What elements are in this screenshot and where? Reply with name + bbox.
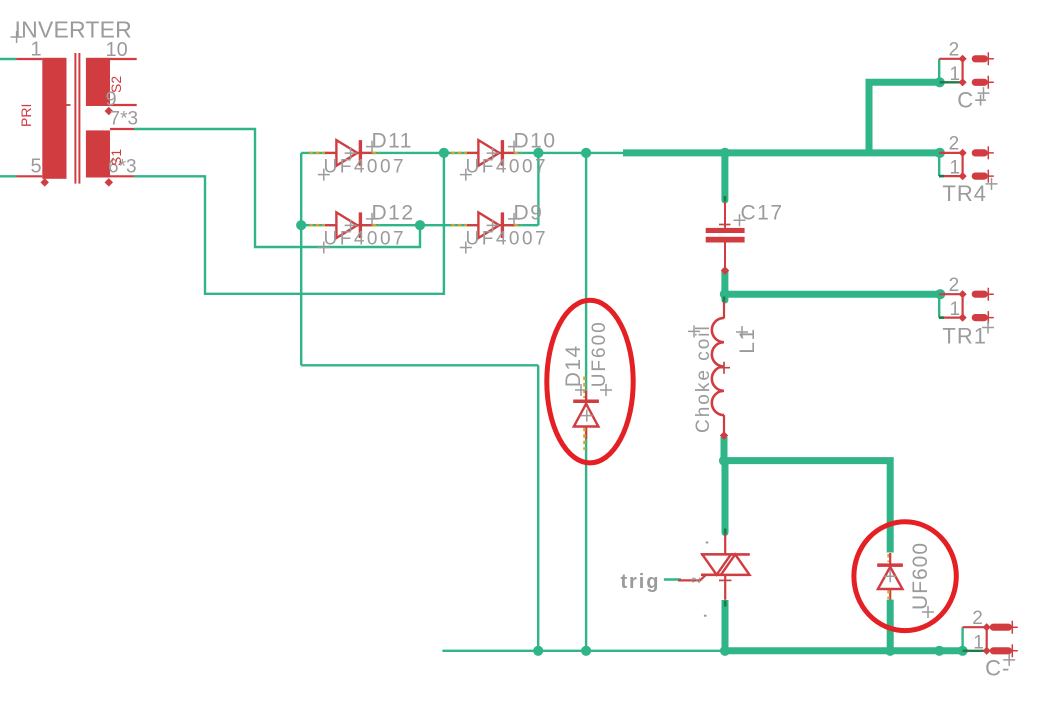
wire end tick above C17 <box>724 196 727 202</box>
diode D11 <box>309 129 413 180</box>
svg-text:L1: L1 <box>736 327 759 353</box>
connector C- <box>963 608 1018 680</box>
node row1-D10 junction <box>533 148 543 158</box>
svg-text:UF600: UF600 <box>909 542 932 610</box>
node bottom UF600 junction <box>885 646 895 656</box>
transformer S2 winding <box>86 58 110 106</box>
pin 6 diamond <box>105 178 113 186</box>
svg-text:2: 2 <box>689 577 703 584</box>
node row1-D14 junction <box>581 148 591 158</box>
node TR1 junction <box>935 289 945 299</box>
pin 7 lead <box>110 128 134 130</box>
SECTION: capacitor C17 <box>706 196 784 275</box>
gray speck left of MT2 <box>706 542 709 544</box>
wire D14 vertical <box>585 153 587 651</box>
connector C+ <box>939 40 994 113</box>
wire C+ branch <box>869 82 940 153</box>
svg-text:1: 1 <box>950 158 961 179</box>
pin 5 diamond <box>40 178 48 186</box>
svg-text:S1: S1 <box>108 149 124 166</box>
SECTION: junction dots <box>296 77 968 656</box>
wire net S2bot pin7 to bridge <box>134 129 420 247</box>
svg-text:UF4007: UF4007 <box>324 156 407 177</box>
wire row1 D11-D10 <box>301 152 623 154</box>
wire C17 bottom to L1 top <box>721 271 728 300</box>
svg-text:1: 1 <box>973 632 984 653</box>
triac gate pin <box>678 575 706 581</box>
capacitor C17 <box>724 202 726 228</box>
transformer origin cross <box>11 31 23 43</box>
svg-text:S2: S2 <box>108 76 124 93</box>
gray speck left of MT1 <box>704 615 707 617</box>
wire end tick triac top <box>724 529 727 535</box>
svg-text:TR1: TR1 <box>942 324 987 349</box>
svg-text:5: 5 <box>31 156 42 178</box>
SECTION: inductor L1 <box>688 297 759 440</box>
wire trig stub <box>664 578 681 580</box>
svg-text:2: 2 <box>949 275 960 296</box>
svg-text:7*3: 7*3 <box>110 109 139 130</box>
svg-text:UF4007: UF4007 <box>324 229 407 250</box>
wire UF600 bottom <box>887 600 894 651</box>
wire pin1 left lead <box>0 58 17 60</box>
wire branch right to UF600 <box>724 461 890 553</box>
pin 9 lead <box>110 104 137 106</box>
diode D10 <box>451 129 556 180</box>
wire TR1 horizontal <box>725 291 940 298</box>
svg-text:1: 1 <box>950 64 961 85</box>
svg-text:UF4007: UF4007 <box>466 156 549 177</box>
wire triac top <box>722 461 729 533</box>
SECTION: bottom UF600 with annotation circle <box>854 522 956 631</box>
svg-text:trig: trig <box>621 571 661 593</box>
transformer core <box>74 53 76 184</box>
wire TR1 connector riser <box>938 294 940 317</box>
svg-text:D9: D9 <box>514 202 544 225</box>
annotation circle around UF600 <box>854 522 956 631</box>
diode D12 <box>309 202 414 254</box>
transformer S1 winding <box>86 130 110 177</box>
diode D9 <box>451 202 548 254</box>
wire row1 thick to TR4 <box>623 149 940 156</box>
wire C- riser <box>961 627 963 651</box>
wire net S1bot pin6 to D11-D10 junction <box>134 153 444 294</box>
node row1-D11 junction <box>439 148 449 158</box>
wire lower bus horizontal <box>301 364 538 366</box>
inductor L1 choke coil <box>723 302 725 319</box>
triac origin cross <box>719 579 731 581</box>
svg-text:10: 10 <box>106 39 128 61</box>
node row1-TR4 junction <box>935 148 945 158</box>
annotation ellipse around D14 <box>547 300 633 463</box>
svg-text:UF600: UF600 <box>589 320 610 387</box>
wire C17 top stub <box>721 153 728 200</box>
node bottom triac junction <box>720 646 730 656</box>
node bottom D14 junction <box>581 646 591 656</box>
node C+ junction <box>935 77 945 87</box>
svg-text:2: 2 <box>949 40 960 61</box>
diode D14 <box>562 320 612 450</box>
pin 10 lead <box>110 58 137 60</box>
wire C+ connector riser <box>938 59 940 83</box>
SECTION: bridge diodes <box>309 129 556 253</box>
wire left vertical from row1 to lower bus <box>300 153 302 365</box>
svg-text:2: 2 <box>949 134 960 155</box>
svg-text:Choke coil: Choke coil <box>693 324 714 433</box>
svg-text:C-: C- <box>985 655 1010 680</box>
wire end tick triac bottom <box>724 601 727 607</box>
pin 5 lead <box>17 175 43 177</box>
node bottom bus junction 1 <box>533 646 543 656</box>
wire end tick above L1 <box>723 297 726 303</box>
transformer origin tick <box>63 104 71 106</box>
SECTION: triac <box>621 529 750 617</box>
wire bottom thick <box>725 647 963 654</box>
node row1-C17 junction <box>720 148 730 158</box>
pin 9 diamond <box>105 107 113 115</box>
svg-text:D10: D10 <box>514 129 557 152</box>
svg-text:D14: D14 <box>562 344 585 387</box>
SECTION: transformer INVERTER <box>11 17 138 187</box>
SECTION: wires <box>0 59 963 651</box>
svg-text:2: 2 <box>972 608 983 629</box>
pin 1 lead <box>17 58 43 60</box>
node row2-D12 right junction <box>415 220 425 230</box>
svg-text:1: 1 <box>31 39 42 61</box>
connector TR1 <box>939 275 994 349</box>
svg-text:1: 1 <box>950 299 961 320</box>
wire row2 D12-D9 <box>301 224 538 226</box>
node bottom near C- junction <box>934 646 944 656</box>
wire bottom thin segment <box>442 650 725 652</box>
node C17-TR1 junction <box>720 289 730 299</box>
SECTION: D14 with annotation ellipse <box>547 300 633 463</box>
node row2-D12 left junction <box>296 220 306 230</box>
diode UF600 bottom <box>877 542 934 618</box>
wire TR4 connector riser <box>938 153 940 176</box>
wire D9 cathode up to row1 <box>537 153 539 225</box>
SECTION: connectors <box>939 40 1018 681</box>
svg-text:D12: D12 <box>372 202 415 225</box>
node L1 bottom junction <box>719 456 729 466</box>
node C- junction <box>958 646 968 656</box>
svg-text:C17: C17 <box>741 202 784 225</box>
wire triac bottom <box>722 600 729 651</box>
transformer PRI winding <box>42 58 66 179</box>
wire pin5 left lead <box>0 175 17 177</box>
triac symbol <box>724 533 726 555</box>
svg-text:TR4: TR4 <box>942 181 987 206</box>
wire lower bus vertical to bottom <box>537 365 539 651</box>
wire L1 bottom junction <box>721 437 728 461</box>
svg-text:D11: D11 <box>372 129 413 152</box>
svg-text:UF4007: UF4007 <box>466 229 549 250</box>
pin 6 lead <box>110 175 134 177</box>
connector TR4 <box>939 134 998 206</box>
svg-text:PRI: PRI <box>18 104 34 127</box>
